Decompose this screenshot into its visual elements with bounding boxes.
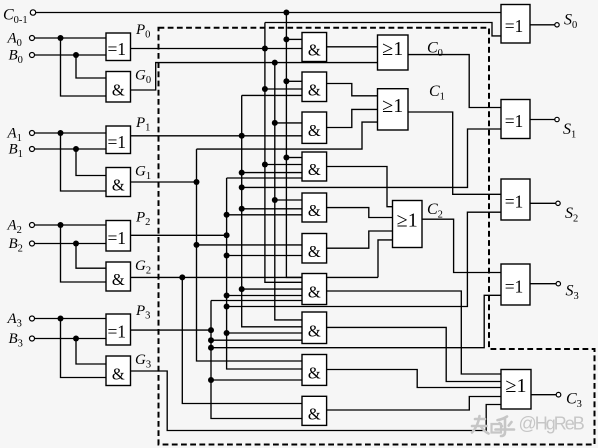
xor gate S1 (=1) bbox=[501, 100, 530, 139]
wire P3 branch to S3 bbox=[211, 295, 501, 347]
wire P2 branch to S2 bbox=[227, 212, 501, 306]
svg-text:&: & bbox=[112, 80, 125, 99]
svg-text:=1: =1 bbox=[505, 192, 524, 212]
bus G0 vertical bbox=[275, 63, 302, 320]
node P2 tap AND5 bbox=[224, 212, 230, 218]
or gate C3 bbox=[501, 370, 531, 410]
and gate G1 (&) bbox=[106, 168, 131, 197]
wire C1 to S2 bbox=[408, 112, 501, 194]
node A3 bbox=[58, 316, 64, 322]
node P1 tap AND5 bbox=[239, 206, 245, 212]
wire AND7 to OR C3 bbox=[327, 291, 501, 374]
xor gate S0 (=1) bbox=[501, 5, 530, 44]
bus G1 vertical bbox=[197, 149, 303, 361]
wire B2 to XOR bbox=[35, 243, 106, 245]
node P2 tap AND7 bbox=[224, 293, 230, 299]
wire B3 to XOR bbox=[35, 338, 106, 340]
and gate 5 (G0 P1 P2) bbox=[302, 193, 327, 222]
wire P1 top tap AND2 bbox=[242, 94, 302, 96]
node C0-1 tap AND4 bbox=[283, 155, 289, 161]
xor gate P3 (=1) bbox=[106, 314, 131, 345]
node G1 tap AND6 bbox=[194, 242, 200, 248]
node C0-1 tap AND2 bbox=[283, 78, 289, 84]
xor gate S3 (=1) bbox=[501, 264, 530, 305]
wire P2 tap AND6 bbox=[227, 255, 302, 257]
node P2 bus junction bbox=[224, 232, 230, 238]
node P1 tap AND4 bbox=[239, 170, 245, 176]
node P2 tap AND6 bbox=[224, 253, 230, 259]
node G2 bus junction bbox=[179, 274, 185, 280]
node P2 branch to S2 bbox=[224, 304, 230, 310]
wire P1 branch to S1 bbox=[242, 129, 501, 187]
wire P3 bbox=[131, 329, 212, 331]
wire G2 riser to C2 or-gate bbox=[378, 240, 393, 278]
wire P0 bbox=[131, 48, 303, 50]
svg-text:=1: =1 bbox=[505, 277, 524, 297]
wire B1 to XOR bbox=[35, 148, 106, 150]
and gate G0 (&) bbox=[106, 72, 131, 103]
node C0-1 branch bbox=[283, 10, 289, 16]
wire P1 tap AND5 bbox=[242, 208, 302, 210]
wire AND6 to OR C2 bbox=[327, 231, 393, 248]
output terminal S1 bbox=[555, 117, 559, 121]
wire A2 to XOR bbox=[35, 224, 106, 226]
wire A1 to XOR bbox=[35, 132, 106, 134]
node P1 tap AND7 bbox=[239, 286, 245, 292]
wire G2 bbox=[131, 276, 379, 278]
output terminal S0 bbox=[555, 23, 559, 27]
output terminal S2 bbox=[556, 201, 560, 205]
wire G0 tap AND5 bbox=[275, 199, 302, 201]
wire C3 output bbox=[531, 394, 556, 396]
node P0 tap AND2 bbox=[262, 86, 268, 92]
wire P3 top tap AND7 bbox=[211, 300, 302, 302]
input terminal A1 bbox=[30, 131, 35, 136]
wire P1 bbox=[131, 135, 303, 137]
node B0 bbox=[73, 52, 79, 58]
svg-text:≥1: ≥1 bbox=[397, 210, 418, 232]
wire C0-1 tap AND1 bbox=[286, 38, 302, 40]
svg-text:&: & bbox=[308, 41, 321, 60]
bus P0 vertical bbox=[265, 23, 302, 283]
wire B3 down to AND bbox=[76, 339, 106, 365]
svg-text:&: & bbox=[308, 160, 321, 179]
wire AND3 to OR C1 bbox=[327, 109, 378, 127]
svg-text:@HgReB: @HgReB bbox=[519, 414, 585, 434]
wire AND4 to OR C2 bbox=[327, 167, 393, 207]
wire G3 route to C3 or-gate bbox=[131, 371, 502, 431]
node P0 bus junction bbox=[262, 46, 268, 52]
input terminal B3 bbox=[30, 336, 35, 341]
node P3 branch to S3 bbox=[208, 345, 214, 351]
svg-text:=1: =1 bbox=[107, 322, 126, 342]
svg-text:=1: =1 bbox=[107, 228, 126, 248]
wire C2 to S3 bbox=[422, 219, 501, 272]
bus P1 vertical bbox=[242, 95, 302, 326]
node C0-1 tap AND1 bbox=[283, 36, 289, 42]
wire AND8 to OR C3 bbox=[327, 327, 501, 381]
wire P0 tap AND4 bbox=[265, 164, 302, 166]
wire AND2 to OR C1 bbox=[327, 84, 378, 96]
svg-text:&: & bbox=[308, 121, 321, 140]
svg-text:=1: =1 bbox=[107, 39, 126, 59]
svg-text:&: & bbox=[112, 364, 125, 383]
node B3 bbox=[73, 336, 79, 342]
node P3 tap AND8 bbox=[208, 337, 214, 343]
svg-text:&: & bbox=[308, 242, 321, 261]
svg-text:&: & bbox=[308, 363, 321, 382]
wire G0 with step up bbox=[131, 63, 378, 90]
xor gate P1 (=1) bbox=[106, 126, 131, 154]
input terminal A3 bbox=[30, 316, 35, 321]
and gate 3 (G0 P1) bbox=[302, 112, 327, 143]
wire C0-1 to S0 top input bbox=[36, 12, 501, 14]
node A0 bbox=[58, 35, 64, 41]
wire B2 down to AND bbox=[76, 244, 106, 269]
node P2 tap AND8 bbox=[224, 330, 230, 336]
wire P0 branch to S0 bbox=[265, 23, 501, 36]
wire P2 tap AND5 bbox=[227, 214, 302, 216]
wire P2 tap AND7 bbox=[227, 295, 302, 297]
wire P2 bbox=[131, 234, 227, 236]
wire C0 to S1 bbox=[408, 55, 501, 108]
bus P2 vertical bbox=[227, 178, 302, 369]
xor gate P0 (=1) bbox=[106, 33, 131, 61]
node A1 bbox=[58, 130, 64, 136]
wire B0 to XOR bbox=[35, 54, 106, 56]
wire C0-1 tap AND4 bbox=[286, 157, 302, 159]
wire S3 output bbox=[530, 283, 556, 285]
and gate 2 (C0-1 P0 P1) bbox=[302, 72, 327, 102]
wire G1 tap AND6 bbox=[197, 244, 303, 246]
bus C0-1 vertical bbox=[286, 13, 302, 278]
wire A2 down to AND bbox=[61, 225, 107, 282]
node P3 tap AND9 bbox=[208, 377, 214, 383]
wire G1 bbox=[131, 181, 197, 183]
wire G0 tap AND3 bbox=[275, 122, 302, 124]
node P1 branch to S1 bbox=[239, 184, 245, 190]
and gate 10 (G2 P3) bbox=[302, 396, 327, 425]
or gate C2 bbox=[393, 201, 423, 248]
svg-text:&: & bbox=[308, 201, 321, 220]
wire C0-1 tap AND2 bbox=[286, 80, 302, 82]
wire S0 output bbox=[530, 24, 555, 26]
and gate G2 (&) bbox=[106, 262, 131, 291]
wire P1 tap AND4 bbox=[242, 172, 302, 174]
svg-text:&: & bbox=[112, 270, 125, 289]
input terminal C0-1 bbox=[30, 10, 35, 15]
watermark zhihu @HgReB bbox=[472, 414, 585, 437]
wire S1 output bbox=[530, 119, 555, 121]
node A2 bbox=[58, 222, 64, 228]
input terminal B1 bbox=[30, 147, 35, 152]
input terminal A2 bbox=[30, 223, 35, 228]
output terminal S3 bbox=[556, 282, 560, 286]
wire P3 tap AND8 bbox=[211, 339, 302, 341]
input terminal B2 bbox=[30, 241, 35, 246]
wire P1 tap AND7 bbox=[242, 288, 302, 290]
bus P3 vertical bbox=[211, 301, 302, 419]
input terminal B0 bbox=[30, 53, 35, 58]
input terminal A0 bbox=[30, 36, 35, 41]
wire A0 to XOR bbox=[35, 37, 106, 39]
and gate 1 (P0 C0-1) bbox=[302, 33, 327, 62]
svg-text:=1: =1 bbox=[505, 16, 524, 36]
wire P0 tap AND2 bbox=[265, 88, 302, 90]
wire AND9 to OR C3 bbox=[327, 370, 501, 388]
node G0 bus junction bbox=[272, 60, 278, 66]
node P3 bus junction bbox=[208, 327, 214, 333]
wire A0 down to AND bbox=[61, 38, 107, 96]
wire P2 tap AND8 bbox=[227, 332, 302, 334]
wire A3 down to AND bbox=[61, 319, 107, 378]
node P1 bus junction bbox=[239, 133, 245, 139]
wire AND1 to OR C0 bbox=[327, 46, 378, 48]
wire AND10 to OR C3 bbox=[327, 397, 501, 411]
svg-text:≥1: ≥1 bbox=[382, 38, 403, 60]
wire A1 down to AND bbox=[61, 133, 107, 191]
node G0 tap AND5 bbox=[272, 197, 278, 203]
xor gate S2 (=1) bbox=[501, 179, 530, 220]
svg-text:≥1: ≥1 bbox=[506, 375, 527, 397]
or gate C1 bbox=[378, 89, 409, 130]
and gate 4 (C0-1 P0 P1 P2) bbox=[302, 152, 327, 181]
svg-text:&: & bbox=[308, 321, 321, 340]
xor gate P2 (=1) bbox=[106, 221, 131, 252]
dashed carry-lookahead unit boundary bbox=[159, 28, 595, 445]
node B1 bbox=[73, 146, 79, 152]
and gate 9 (G1 P2 P3) bbox=[302, 355, 327, 386]
node G1 bus junction bbox=[194, 179, 200, 185]
wire A3 to XOR bbox=[35, 318, 106, 320]
and gate 7 (C0-1 P0 P1 P2 P3) bbox=[302, 274, 327, 305]
svg-text:&: & bbox=[112, 176, 125, 195]
node G0 tap AND3 bbox=[272, 120, 278, 126]
and gate G3 (&) bbox=[106, 356, 131, 386]
and gate 6 (G1 P2) bbox=[302, 234, 327, 264]
svg-text:&: & bbox=[308, 283, 321, 302]
node P0 tap AND4 bbox=[262, 162, 268, 168]
or gate C0 bbox=[378, 35, 409, 70]
svg-text:=1: =1 bbox=[107, 132, 126, 152]
bus G2 vertical bbox=[182, 277, 302, 403]
wire P2 top tap AND4 bbox=[227, 177, 302, 179]
wire G1 riser to C1 or-gate bbox=[197, 122, 378, 149]
svg-text:≥1: ≥1 bbox=[382, 95, 403, 117]
wire P3 tap AND9 bbox=[211, 379, 302, 381]
wire B1 down to AND bbox=[76, 149, 106, 176]
wire B0 down to AND bbox=[76, 55, 106, 78]
node B2 bbox=[73, 241, 79, 247]
output terminal C3 bbox=[556, 392, 561, 397]
svg-text:=1: =1 bbox=[505, 111, 524, 131]
and gate 8 (G0 P1 P2 P3) bbox=[302, 312, 327, 344]
svg-text:&: & bbox=[308, 404, 321, 423]
svg-text:&: & bbox=[308, 80, 321, 99]
wire S2 output bbox=[530, 202, 556, 204]
wire AND5 to OR C2 bbox=[327, 208, 393, 218]
